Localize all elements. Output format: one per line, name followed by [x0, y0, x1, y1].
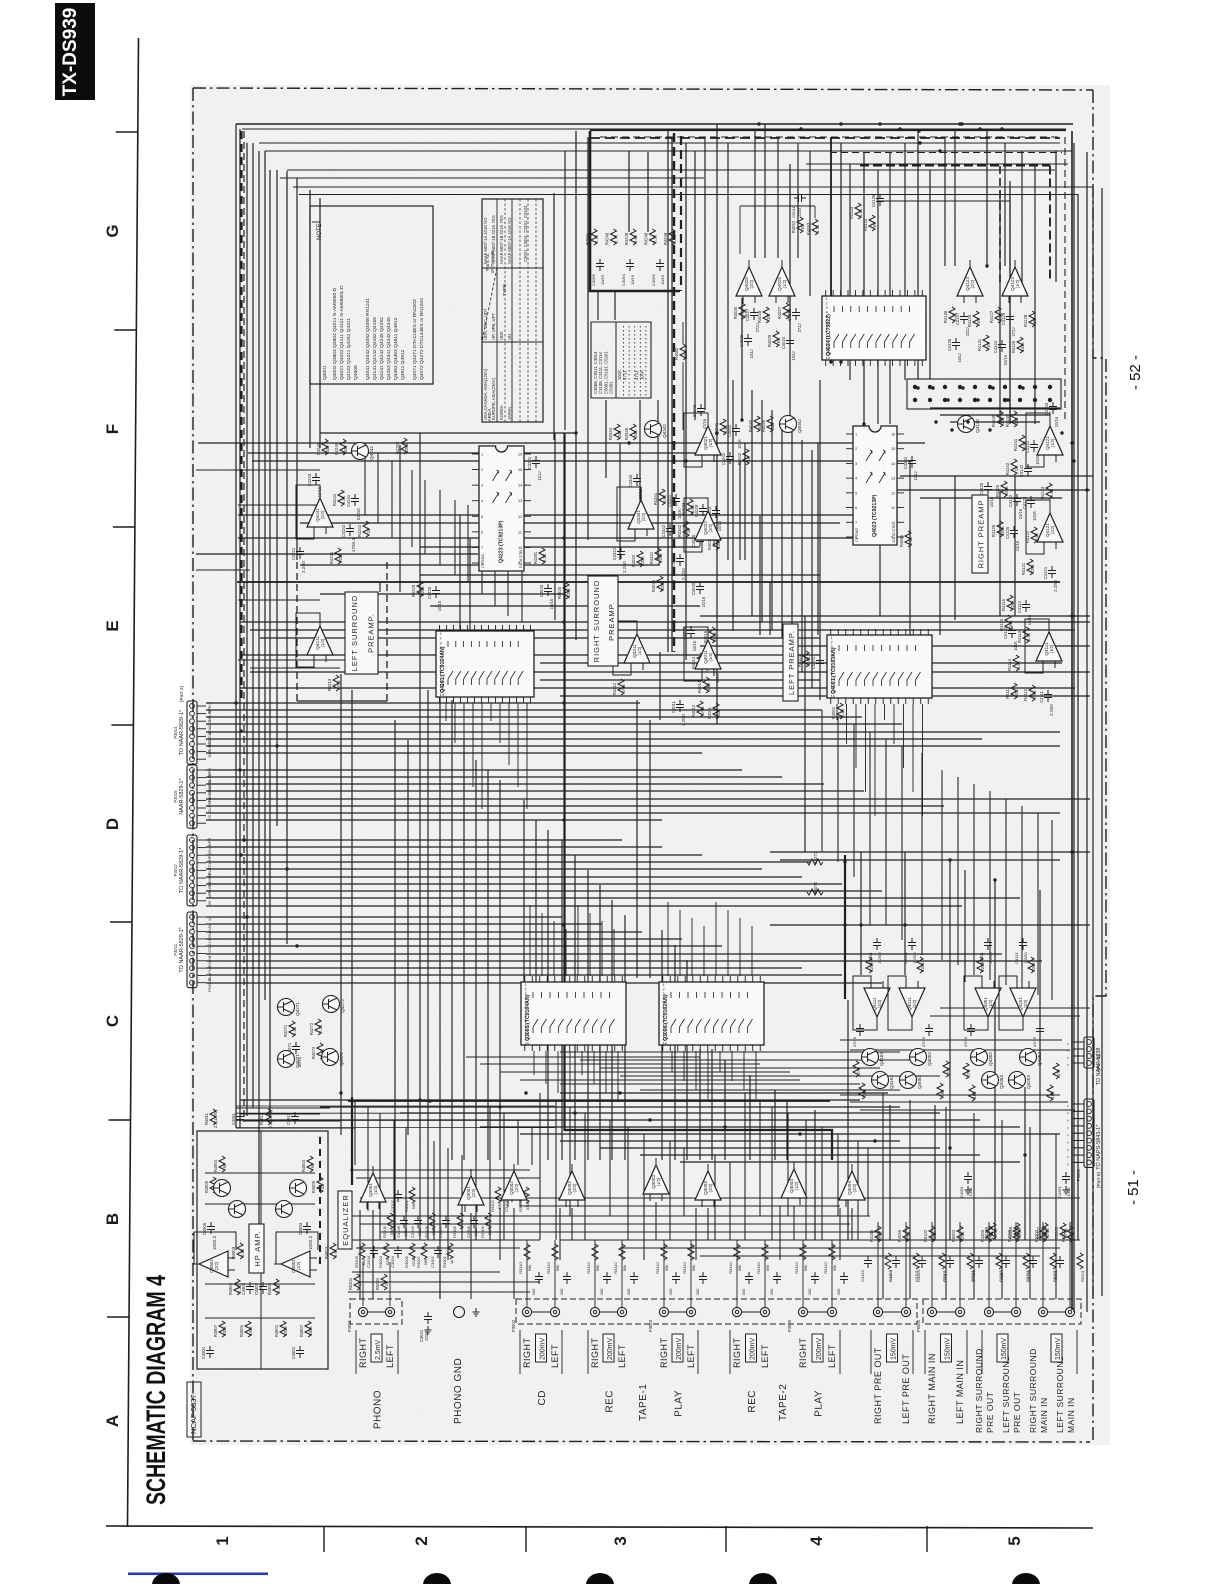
junction — [234, 701, 237, 704]
svg-text:E: E — [103, 620, 122, 631]
capacitor C4026 — [744, 334, 752, 346]
wire — [517, 1120, 519, 1165]
wire — [1021, 806, 1023, 990]
wire — [639, 400, 641, 520]
capacitor C4020 — [696, 582, 704, 594]
feedback wire — [276, 1232, 318, 1264]
wire — [855, 704, 857, 768]
feedback wire — [613, 621, 637, 675]
wire — [399, 445, 401, 592]
junction — [275, 744, 278, 747]
wire — [517, 703, 519, 787]
capacitor — [964, 1172, 972, 1184]
wire — [988, 1222, 990, 1307]
wire — [487, 770, 489, 1160]
wire — [499, 1208, 501, 1260]
bus wire — [999, 190, 1001, 424]
capacitor — [918, 1256, 926, 1268]
resistor R4221 — [335, 548, 341, 564]
wire — [206, 967, 802, 969]
wire — [1073, 1118, 1084, 1120]
wire — [481, 515, 483, 594]
jack PHONO right — [358, 1307, 367, 1316]
wire — [930, 407, 1060, 409]
grid tick — [323, 1526, 325, 1552]
resistor R5001 — [381, 1274, 387, 1290]
junction — [242, 838, 245, 841]
resistor R4052 — [797, 217, 803, 233]
transistor Q4152 — [862, 1049, 879, 1066]
wire — [867, 1148, 869, 1216]
wire — [683, 1148, 685, 1216]
registration dot — [749, 1573, 777, 1584]
wire — [206, 723, 902, 725]
capacitor C4113 — [1008, 626, 1016, 638]
wire — [999, 490, 1001, 616]
wire — [700, 615, 1090, 617]
resistor R4113 — [1023, 627, 1029, 643]
transistor Q4342 — [645, 421, 662, 438]
capacitor C4341 — [672, 494, 680, 506]
wire — [206, 839, 622, 841]
wire — [840, 1039, 1062, 1041]
bus wire — [246, 143, 248, 1116]
resistor R4355 — [986, 1226, 992, 1242]
note rule — [312, 221, 320, 223]
bus wire — [280, 177, 704, 179]
wire — [494, 523, 496, 606]
group bracket — [588, 1330, 698, 1374]
wire — [557, 1051, 559, 1093]
resistor R4111 — [1011, 683, 1017, 699]
wire — [1073, 1154, 1084, 1156]
level label 200mV — [536, 1334, 547, 1362]
junction — [428, 1099, 431, 1102]
wire — [236, 1105, 555, 1107]
junction — [672, 441, 675, 444]
wire — [600, 1067, 880, 1069]
transistor Q4272 — [323, 996, 340, 1013]
wire — [669, 1141, 671, 1240]
wire — [600, 1147, 940, 1149]
jack PLAY right — [659, 1307, 668, 1316]
wire — [389, 1262, 391, 1306]
junction — [562, 620, 565, 623]
capacitor C4001 — [908, 456, 916, 468]
wire — [620, 1075, 940, 1077]
wire — [930, 1015, 1080, 1017]
wire — [499, 703, 501, 743]
schematic border (dash-dot) left — [192, 88, 194, 1441]
resistor — [1023, 1253, 1029, 1269]
capacitor — [975, 1256, 983, 1268]
wire — [754, 129, 756, 258]
resistor R4902 — [234, 1279, 240, 1295]
wire — [882, 1093, 884, 1299]
thick bus wire — [830, 137, 832, 296]
connector P5001 — [1065, 1099, 1094, 1167]
wire — [445, 703, 447, 721]
wire — [513, 1208, 515, 1299]
wire — [884, 704, 886, 720]
resistor R4012 — [697, 701, 703, 717]
resistor R4901 — [245, 1321, 251, 1337]
IC Q3006 (TC9162AN) — [659, 976, 764, 1051]
bus wire — [299, 194, 1078, 196]
wire — [240, 687, 1075, 689]
resistor R4803 — [330, 1243, 336, 1259]
resistor — [409, 1243, 415, 1259]
wire — [900, 475, 1093, 477]
block label HP AMP. — [249, 1224, 264, 1273]
wire — [879, 545, 881, 616]
capacitor C4126 — [952, 338, 960, 350]
transistor Q4242 — [352, 443, 369, 460]
resistor R4041 — [720, 419, 726, 435]
grid tick — [725, 1526, 727, 1552]
resistor R4156 — [875, 1226, 881, 1242]
wire — [593, 1051, 595, 1084]
resistor — [592, 1244, 598, 1260]
bus wire — [296, 178, 298, 560]
resistor R4053 — [812, 219, 818, 235]
wire — [420, 546, 700, 548]
capacitor C4901 — [206, 1346, 214, 1358]
transistor Q4271 — [278, 999, 295, 1016]
wire — [391, 461, 393, 538]
wire — [659, 652, 661, 720]
capacitor C4812 — [291, 1112, 299, 1124]
wire — [885, 739, 887, 925]
wire — [206, 890, 882, 892]
capacitor — [414, 1216, 422, 1228]
wire — [419, 1134, 421, 1240]
wire — [877, 1222, 879, 1307]
area table box — [482, 199, 543, 422]
op-amp Q4121 — [1037, 506, 1063, 549]
resistor R4011 — [713, 703, 719, 719]
jack group outline (dashed) — [516, 1299, 917, 1324]
wire — [206, 805, 944, 807]
svg-text:A: A — [103, 1415, 122, 1427]
wire — [238, 514, 888, 516]
junction — [672, 513, 675, 516]
thick bus wire — [351, 1097, 353, 1185]
wire — [619, 443, 621, 560]
junction — [245, 915, 248, 918]
bus wire — [575, 131, 577, 640]
op-amp Q3004 — [781, 1162, 807, 1205]
wire — [236, 1127, 355, 1129]
feedback wire — [684, 627, 708, 681]
capacitor C4043 — [697, 404, 705, 416]
resistor — [996, 1253, 1002, 1269]
junction — [978, 127, 981, 130]
wire — [613, 929, 615, 976]
wire — [640, 1089, 900, 1091]
resistor R4811 — [210, 1109, 216, 1125]
bus wire — [309, 190, 311, 448]
wire — [250, 667, 340, 669]
resistor R4241 — [338, 490, 344, 506]
wire — [901, 746, 903, 940]
svg-text:P3014: P3014 — [173, 726, 178, 739]
wire — [850, 1101, 1068, 1103]
left surround enclosure (dashed) — [386, 562, 388, 701]
wire — [454, 500, 456, 575]
bus wire (thick dashed) — [1049, 166, 1051, 283]
wire — [364, 443, 366, 515]
bus wire — [1077, 194, 1079, 1240]
capacitor C4041 — [732, 424, 740, 436]
junction — [573, 1111, 576, 1114]
wire — [587, 870, 589, 1160]
wire — [620, 1247, 1060, 1249]
resistor R4072 — [317, 1043, 323, 1059]
wire — [500, 1071, 790, 1073]
wire — [574, 855, 576, 1160]
wire — [1021, 151, 1023, 287]
capacitor — [1036, 1024, 1044, 1036]
wire — [463, 703, 465, 765]
wire — [909, 461, 911, 635]
wire — [1073, 1103, 1084, 1105]
resistor R5302 — [1040, 1226, 1046, 1242]
resistor R4125 — [997, 521, 1003, 537]
wire — [814, 206, 816, 218]
wire — [206, 846, 662, 848]
wire — [973, 784, 975, 975]
resistor R4133 — [855, 203, 861, 219]
wire — [461, 1155, 463, 1240]
wire — [433, 1141, 435, 1240]
wire — [1015, 1222, 1017, 1307]
capacitor — [603, 1272, 611, 1284]
wire — [555, 1100, 557, 1240]
svg-text:TX-DS939: TX-DS939 — [60, 8, 81, 97]
level label 2.5mV — [371, 1334, 382, 1362]
transistor Q4042 — [780, 416, 797, 433]
resistor R4345 — [630, 424, 636, 440]
wire — [909, 1100, 911, 1299]
resistor — [383, 1243, 389, 1259]
wire — [206, 905, 962, 907]
junction — [574, 431, 577, 434]
transistor — [229, 1201, 246, 1218]
resistor R5102 — [929, 1226, 935, 1242]
svg-text:NAAR-5829-1*: NAAR-5829-1* — [179, 778, 185, 815]
bus wire — [806, 163, 1068, 165]
wire — [240, 1113, 320, 1115]
resistor — [963, 1063, 969, 1079]
wire — [206, 716, 862, 718]
wire — [571, 1208, 573, 1240]
wire — [368, 1311, 385, 1313]
ground — [425, 1326, 432, 1334]
wire — [447, 1213, 449, 1260]
resistor R5202 — [1060, 1223, 1066, 1239]
wire — [609, 1120, 611, 1216]
wire — [526, 703, 528, 809]
wire — [1001, 1120, 1003, 1299]
op-amp Q4025 — [769, 260, 795, 303]
jack PHONO left — [385, 1307, 394, 1316]
wire — [1073, 1140, 1084, 1142]
junction — [627, 441, 630, 444]
wire — [1073, 1062, 1084, 1064]
resistor R4132 — [869, 215, 875, 231]
junction — [991, 386, 994, 389]
wire — [489, 1107, 491, 1240]
junction — [757, 122, 760, 125]
capacitor — [672, 1272, 680, 1284]
capacitor C4141 — [1030, 440, 1038, 452]
wire — [248, 452, 700, 454]
capacitor — [535, 1272, 543, 1284]
junction — [948, 858, 951, 861]
junction — [898, 127, 901, 130]
resistor R4114 — [1013, 655, 1019, 671]
resistor R4022 — [637, 551, 643, 567]
wire — [889, 152, 891, 424]
wire — [727, 910, 729, 976]
bus wire — [1073, 143, 1075, 1312]
jack PLAY right — [798, 1307, 807, 1316]
wire — [877, 170, 879, 424]
capacitor C4127 — [960, 312, 968, 324]
resistor — [495, 1187, 501, 1203]
bus wire — [235, 124, 237, 1128]
junction — [339, 1091, 342, 1094]
wire — [740, 205, 815, 207]
svg-text:TO NAAR-5829-1*: TO NAAR-5829-1* — [179, 709, 185, 755]
wire — [529, 905, 531, 976]
wire — [1009, 201, 1011, 424]
wire — [703, 926, 705, 976]
op-amp Q4111 — [864, 981, 890, 1024]
capacitor C4520 — [544, 584, 552, 596]
bus wire — [258, 151, 260, 1240]
capacitor — [811, 1272, 819, 1284]
wire — [236, 1107, 330, 1109]
schematic border (dash-dot) top — [193, 88, 1093, 90]
wire — [751, 390, 753, 616]
junction — [916, 386, 919, 389]
resistor — [969, 1085, 975, 1101]
wire — [560, 695, 1090, 697]
junction — [672, 620, 675, 623]
wire — [682, 362, 684, 430]
jack REC right — [732, 1307, 741, 1316]
level label 200mV — [812, 1334, 823, 1362]
wire — [934, 1105, 936, 1240]
capacitor C4135 — [876, 194, 884, 206]
resistor R4905 — [210, 1177, 216, 1193]
wire — [1048, 1311, 1065, 1313]
junction — [238, 768, 241, 771]
wire — [989, 791, 991, 980]
svg-text:F: F — [103, 424, 122, 434]
wire — [921, 753, 923, 955]
resistor — [552, 1244, 558, 1260]
bus wire — [986, 129, 988, 266]
resistor R4120 — [1001, 481, 1007, 497]
wire — [352, 1271, 500, 1273]
wire — [535, 820, 537, 982]
resistor R4321 — [655, 548, 661, 564]
registration dot — [423, 1573, 451, 1584]
capacitor C4803 — [303, 1222, 311, 1234]
registration dot — [586, 1573, 614, 1584]
capacitor C4802 — [259, 1282, 267, 1294]
capacitor C4905 — [207, 1222, 215, 1234]
capacitor C4345 — [633, 474, 641, 486]
junction — [1085, 488, 1088, 491]
wire — [520, 1133, 1060, 1135]
wire — [836, 704, 838, 720]
wire — [679, 910, 681, 976]
op-amp Q4021 — [695, 419, 721, 462]
junction — [958, 122, 961, 125]
registration mark (blue rule) — [128, 1573, 268, 1576]
junction — [239, 853, 242, 856]
capacitor C4801 — [296, 1346, 304, 1358]
wire — [680, 1161, 1020, 1163]
resistor R4014 — [703, 677, 709, 693]
capacitor table dashed rule — [623, 326, 625, 396]
wire — [994, 1311, 1011, 1313]
resistor R4246 — [340, 439, 346, 455]
junction — [859, 923, 862, 926]
wire — [206, 916, 562, 918]
bus wire — [252, 143, 254, 1108]
capacitor — [892, 1256, 900, 1268]
wire — [715, 902, 717, 976]
junction — [524, 1091, 527, 1094]
wire — [1073, 1161, 1084, 1163]
feedback wire — [684, 413, 708, 467]
grid tick — [111, 724, 133, 726]
resistor R4255 — [1014, 1223, 1020, 1239]
wire — [206, 738, 982, 740]
wire — [601, 921, 603, 976]
group bracket — [356, 1330, 398, 1374]
capacitor — [370, 1246, 378, 1258]
wire — [846, 704, 848, 744]
capacitor C4220 — [432, 586, 440, 598]
capacitor — [1002, 1256, 1010, 1268]
wire — [600, 1311, 617, 1313]
wire — [561, 840, 563, 1160]
op-amp Q4311 — [624, 627, 650, 670]
op-amp Q3003 — [695, 1164, 721, 1207]
resistor — [1077, 1253, 1083, 1269]
wire — [467, 505, 469, 582]
wire — [714, 1155, 716, 1240]
junction — [878, 122, 881, 125]
wire — [351, 690, 353, 1135]
bus wire — [1092, 188, 1094, 1296]
phono ground terminal P3005 — [454, 1307, 465, 1318]
wire — [560, 1092, 888, 1094]
wire — [1004, 143, 1006, 266]
jack LEFT SURROUND|MAIN IN left — [1065, 1307, 1074, 1316]
resistor — [917, 957, 923, 973]
block label EQUALIZER — [338, 1191, 352, 1249]
resistor R4029 — [773, 331, 779, 347]
wire — [814, 1110, 816, 1240]
wire — [559, 1208, 561, 1260]
